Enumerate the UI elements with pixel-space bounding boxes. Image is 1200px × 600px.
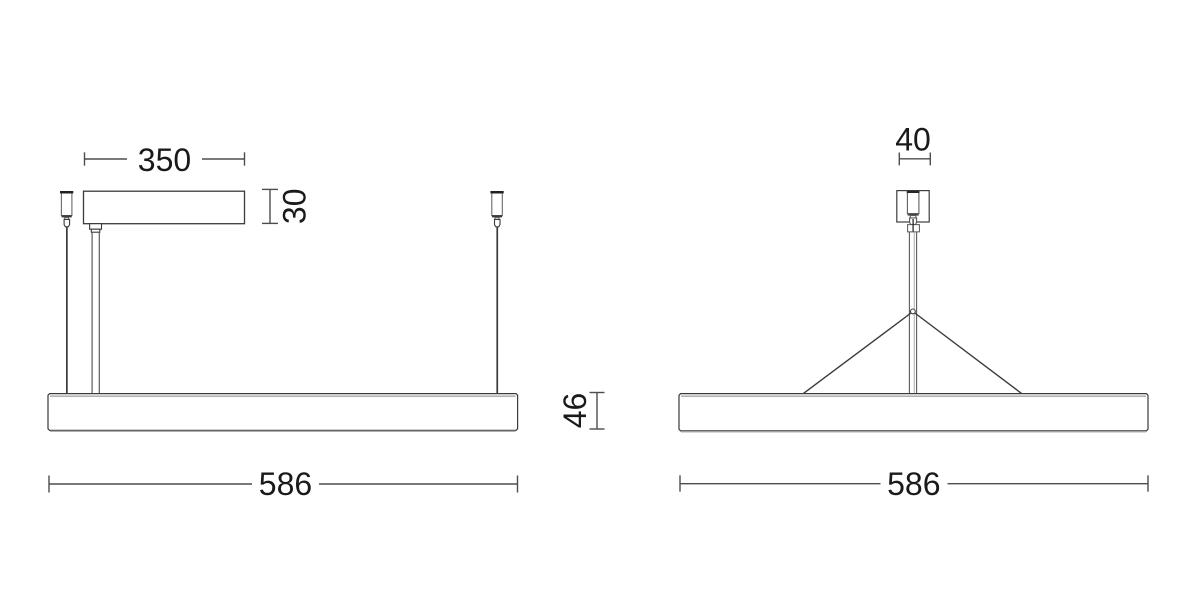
svg-text:350: 350: [138, 142, 191, 178]
svg-text:46: 46: [557, 393, 593, 429]
dimension 586 left line: [49, 476, 518, 493]
cable junction: [911, 309, 916, 314]
dimension 30 line: [262, 189, 278, 223]
svg-text:586: 586: [259, 466, 312, 502]
driver box: [84, 191, 245, 224]
cable left: [66, 227, 68, 394]
power stem collar: [90, 224, 102, 233]
dimension 46 line: [590, 393, 605, 430]
dimension 30 label: [277, 189, 313, 225]
suspension gripper right: [490, 191, 503, 227]
dimension 40 label: [895, 122, 931, 158]
dimension 46 label: [557, 393, 593, 429]
svg-text:586: 586: [887, 466, 940, 502]
power stem rod: [92, 232, 99, 393]
dimension 40 line: [899, 153, 930, 166]
diagonal cable right: [915, 313, 1022, 393]
svg-text:40: 40: [895, 122, 931, 158]
center rod right view: [909, 232, 916, 393]
luminaire bar right view: [679, 394, 1148, 432]
dimension 586 right line: [680, 475, 1148, 491]
ceiling canopy: [897, 191, 929, 222]
cable right: [496, 227, 498, 394]
canopy gripper: [907, 191, 920, 225]
svg-text:30: 30: [277, 189, 313, 225]
dimension 350 line: [85, 152, 245, 165]
diagonal cable left: [804, 313, 912, 393]
canopy lower bracket: [908, 219, 920, 232]
luminaire bar left view: [48, 394, 518, 432]
dimension 586 right label: [887, 466, 940, 502]
dimension 350 label: [138, 142, 191, 178]
suspension gripper left: [60, 191, 73, 227]
dimension 586 left label: [259, 466, 312, 502]
